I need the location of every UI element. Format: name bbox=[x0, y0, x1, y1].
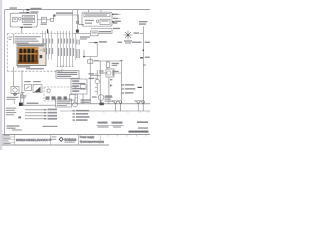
branch labels bbox=[125, 84, 135, 85]
BOMAG logo diamond bbox=[59, 137, 64, 142]
wire w9 bbox=[69, 31, 71, 67]
wire labels rotated bundle right bbox=[75, 40, 78, 45]
starter motor M1 box bbox=[11, 87, 19, 94]
left cell rows bbox=[3, 137, 15, 142]
wire stub v bbox=[96, 44, 98, 57]
revision text right bbox=[137, 121, 148, 123]
divider after logo bbox=[78, 135, 80, 146]
dashed fuse box border bbox=[7, 34, 72, 72]
A2 inner strip box bbox=[84, 13, 110, 16]
wire w7 bbox=[63, 31, 65, 67]
photo orange background bbox=[18, 47, 39, 64]
wire into arrow bbox=[89, 42, 95, 44]
wire drop X1 bbox=[76, 10, 78, 34]
wire stub gauge top bbox=[96, 84, 98, 95]
ticks below ground bus bbox=[104, 111, 148, 113]
text rows above console bbox=[27, 68, 44, 69]
module A5 box bbox=[100, 60, 121, 104]
wire G1 to F10 bbox=[37, 19, 41, 21]
svg-text:BOMAG: BOMAG bbox=[64, 138, 76, 142]
relay bar 3 bbox=[27, 49, 30, 63]
note box N1 bbox=[56, 71, 79, 79]
connector XB2b bbox=[140, 100, 142, 101]
wire labels rotated w5-w10 upper bbox=[57, 39, 60, 44]
wire console right bbox=[79, 77, 81, 80]
trunk wire 31 bbox=[142, 27, 144, 104]
wire bus 33 right bbox=[98, 32, 112, 34]
note text rows bbox=[57, 72, 77, 73]
doc number small bbox=[138, 127, 148, 128]
down arrow into fusebox bbox=[47, 29, 49, 33]
F10 label bbox=[42, 19, 46, 20]
wire to ref box bbox=[21, 104, 56, 106]
K7 label above bbox=[99, 31, 111, 32]
wire A2 bottom bbox=[91, 29, 112, 34]
trunk branch labels mid bbox=[132, 42, 142, 43]
wire w5 bbox=[57, 31, 59, 67]
battery G2 inner box bbox=[13, 17, 18, 22]
glow control unit A2 box bbox=[82, 12, 112, 26]
ref line 2 bbox=[25, 109, 44, 111]
wire down to bus left of gauge bbox=[89, 76, 91, 104]
trunk top labels bbox=[139, 21, 148, 22]
ref row R4 right bbox=[73, 119, 75, 121]
BOMAG subtext bbox=[65, 141, 75, 144]
ground bus 31 line bbox=[60, 110, 150, 112]
console symbols row bbox=[46, 96, 50, 99]
connector circle chassis bbox=[21, 93, 23, 95]
wire w6 bbox=[60, 31, 62, 67]
wire G1 down to fusebox bbox=[21, 27, 23, 34]
small dark tick bbox=[18, 116, 21, 118]
switch S5 box bbox=[25, 85, 32, 91]
label row kl15 bbox=[113, 14, 119, 15]
console small box bbox=[70, 95, 76, 101]
revision scribble 2 bbox=[112, 122, 123, 124]
mid labels near console wires bbox=[81, 99, 92, 100]
A2 output arrow 1 bbox=[112, 13, 115, 15]
wire w1 bbox=[42, 31, 44, 58]
gauge P1 circle bbox=[98, 95, 104, 101]
revision scribble 1 bbox=[98, 122, 108, 124]
pump K9 bar bbox=[112, 70, 114, 76]
pump K9 box bbox=[106, 69, 114, 77]
ref line 4b bbox=[25, 118, 44, 120]
A2 output arrow 2 bbox=[112, 21, 115, 23]
wire w10 bbox=[72, 10, 74, 67]
trunk tick 65 bbox=[143, 64, 146, 66]
title block bottom line bbox=[2, 144, 109, 146]
gauge P1 stub down bbox=[100, 100, 102, 103]
photo right marks bbox=[43, 48, 45, 52]
lamp H3 circle bbox=[47, 89, 50, 92]
wire riser to bus A bbox=[54, 15, 79, 18]
plug P circle bbox=[73, 102, 78, 107]
caption right of K9 bbox=[113, 71, 119, 72]
dashed box inner text marks bbox=[9, 37, 13, 38]
terminal strip box bbox=[71, 79, 87, 94]
label top-left of bus bbox=[10, 7, 18, 8]
glow plug R1 starburst bbox=[124, 31, 133, 40]
label row kl30 bbox=[113, 18, 118, 19]
switch S5 mark bbox=[26, 86, 30, 89]
wire w-chassis bbox=[22, 70, 25, 93]
relay bar 2 bbox=[23, 49, 26, 63]
right cells divider bbox=[100, 135, 102, 146]
node circle in A2 bbox=[96, 20, 98, 22]
G1 inner text bbox=[23, 16, 33, 17]
pump K9 circle bbox=[107, 71, 111, 75]
ref box top bbox=[56, 99, 72, 107]
node arrow top bus bbox=[26, 9, 29, 11]
label above B1 bbox=[33, 81, 41, 82]
label right of arrow 15 bbox=[31, 11, 39, 12]
K7 inner bbox=[92, 32, 97, 33]
left cell texts bbox=[4, 135, 10, 136]
wire 15 stub bbox=[20, 12, 27, 15]
divider after title bbox=[49, 135, 51, 146]
wire drop to fuse F20 bbox=[84, 50, 97, 57]
svg-text:Power supply: Power supply bbox=[80, 136, 95, 139]
wire down to fuse bbox=[89, 57, 91, 76]
text above X0 bbox=[20, 95, 27, 96]
terminal strip rows bbox=[72, 80, 79, 81]
trunk branch w-arrows bbox=[121, 85, 124, 93]
fuse legend text rows bbox=[15, 36, 41, 43]
ref line 3 bbox=[25, 112, 44, 114]
label PE bbox=[118, 42, 123, 43]
wire staircase down bbox=[79, 15, 84, 24]
caption left of K9 bbox=[99, 70, 103, 71]
wire into module bbox=[90, 75, 100, 77]
fuse F10 box bbox=[41, 17, 46, 23]
black connector blob X0 bbox=[19, 103, 23, 106]
wire bus 33 bbox=[73, 32, 91, 34]
wire K9 down bbox=[108, 77, 110, 104]
caption under motor bbox=[7, 97, 19, 98]
relay bar 1 bbox=[19, 49, 22, 63]
label right of arrow 30 bbox=[31, 8, 42, 9]
wire labels w1-w4 lower bbox=[42, 48, 45, 54]
ref row R1 right bbox=[73, 110, 75, 112]
connector XB1a bbox=[112, 100, 114, 101]
label above S5 bbox=[24, 81, 31, 82]
connector XB2a bbox=[135, 100, 137, 101]
wire into pump bbox=[100, 72, 121, 74]
doc number line bbox=[129, 131, 149, 133]
note rows left bbox=[7, 125, 20, 126]
svg-text:BW216 DIESEL/ADC/UC ©: BW216 DIESEL/ADC/UC © bbox=[16, 138, 52, 142]
motor M1 circle bbox=[13, 88, 17, 92]
connector circle on X1 bbox=[76, 21, 78, 23]
mid vertical wire 15 bbox=[96, 70, 98, 84]
fuse F20 box bbox=[88, 60, 93, 63]
horn B1 box bbox=[33, 85, 42, 93]
wire w11 bbox=[75, 33, 77, 60]
wire w3 bbox=[48, 31, 50, 60]
wire labels rotated w1-w4 bbox=[42, 39, 45, 44]
junction dot bend bbox=[83, 56, 85, 58]
plug P stub bbox=[74, 101, 76, 102]
relay K7 box on bus bbox=[90, 31, 98, 36]
connector XB1b bbox=[117, 100, 119, 101]
wire battery minus down bbox=[13, 67, 15, 87]
generator unit G1 box bbox=[10, 13, 37, 27]
ref line 4 bbox=[25, 115, 44, 117]
relay bar 5 bbox=[35, 50, 37, 62]
label above bus A bbox=[56, 12, 73, 13]
starburst caption bbox=[124, 40, 132, 41]
wire labels rotated lower bbox=[57, 48, 60, 56]
node arrow wire15 bbox=[26, 12, 29, 14]
lamp H4 circle bbox=[95, 79, 99, 83]
bottom bus wire bbox=[66, 103, 150, 105]
node circle inside G1 bbox=[19, 17, 22, 20]
connector dark block on X1 bbox=[76, 30, 79, 33]
photo orange dark bottom bbox=[18, 60, 39, 64]
caption under module bbox=[105, 97, 113, 98]
relay board photo K-board bbox=[17, 44, 46, 69]
scan page edge shadow bbox=[0, 0, 2, 150]
wire w8 bbox=[66, 31, 68, 67]
dashed console box bbox=[44, 87, 76, 101]
left ref text block bbox=[6, 108, 16, 109]
caption right of F21 bbox=[112, 63, 119, 64]
ruler ticks title line bbox=[108, 135, 146, 137]
label row kl50 bbox=[113, 22, 118, 23]
relay bar 4 bbox=[31, 49, 34, 63]
horn B1 dark symbol bbox=[35, 87, 41, 93]
wire into photo bbox=[13, 34, 15, 45]
trunk tick 33 bbox=[140, 32, 144, 34]
connector block on bottom bus bbox=[99, 103, 103, 106]
text row under photo-box area bbox=[26, 67, 28, 69]
title block top line bbox=[2, 134, 150, 136]
ground hatch under M1 bbox=[13, 94, 18, 96]
A2 top stubs bbox=[89, 10, 102, 12]
stub box top to bus bbox=[23, 10, 25, 14]
frame left border bbox=[4, 10, 6, 135]
fuse F21 stub bbox=[107, 61, 109, 70]
ref row R3 right bbox=[73, 116, 75, 118]
relay caps highlight bbox=[19, 53, 37, 55]
wires down to refs bbox=[14, 95, 24, 106]
wire end ticks bbox=[57, 66, 74, 68]
wire w2 bbox=[45, 31, 47, 58]
small caption right of F20 bbox=[94, 60, 100, 61]
wire 30 top bus bbox=[5, 9, 150, 11]
trunk tick label bbox=[134, 32, 140, 33]
svg-text:Spannungsversorgung: Spannungsversorgung bbox=[80, 140, 105, 143]
G1 bottom arrow label bbox=[21, 26, 24, 28]
trunk tick label2 bbox=[145, 57, 150, 58]
wire F10 to F11 bbox=[46, 19, 50, 21]
arrow label mid bbox=[94, 42, 97, 44]
tick labels on mid wire bbox=[95, 74, 98, 79]
trunk tick arrow right bbox=[140, 57, 143, 59]
junction mark riser bbox=[53, 15, 55, 17]
arrow label text bbox=[99, 41, 107, 42]
photo caption text bbox=[17, 66, 30, 67]
arrow into trunk bbox=[138, 86, 142, 88]
tick gauge bbox=[95, 87, 97, 91]
A2 inner small box bbox=[100, 19, 110, 24]
left cells divider bbox=[3, 135, 15, 146]
relay K0b inner box bbox=[22, 20, 34, 23]
A2 inner text bbox=[85, 14, 107, 15]
wires under terminal strip bbox=[78, 94, 84, 104]
fuse F21 bbox=[106, 62, 109, 68]
caption left of gauge bbox=[92, 96, 97, 97]
photo orange light top bbox=[18, 47, 39, 51]
ref row R2 right bbox=[73, 113, 75, 115]
branch wire top cap bbox=[120, 59, 123, 61]
fuse F11 bbox=[50, 18, 53, 21]
note row mid bbox=[43, 126, 58, 127]
small text right of fuse bbox=[115, 63, 120, 64]
small cell text bbox=[51, 136, 56, 137]
marks on pump wire bbox=[110, 79, 112, 80]
photo header text bbox=[18, 45, 44, 47]
relay K0 inner box bbox=[22, 16, 34, 19]
label under X5 bbox=[80, 36, 90, 37]
wire w4 bbox=[51, 31, 53, 60]
junction dot trunk bbox=[142, 49, 144, 51]
photo right small dark part bbox=[40, 55, 43, 58]
A2 right outer labels bbox=[114, 12, 116, 14]
